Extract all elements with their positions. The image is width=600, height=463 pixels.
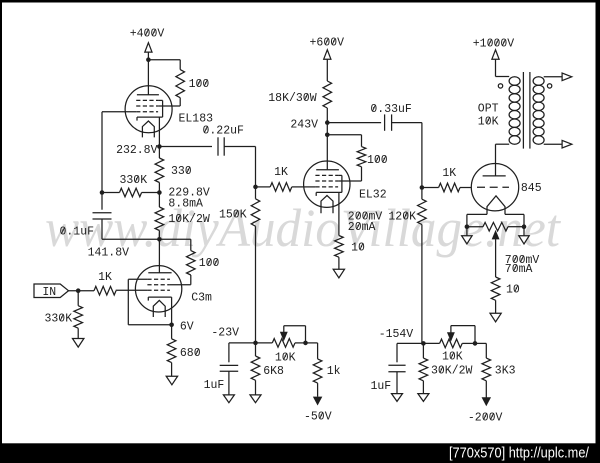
svg-text:6K8: 6K8 [263, 365, 284, 378]
svg-text:-50V: -50V [304, 410, 332, 423]
svg-text:+600V: +600V [310, 37, 345, 50]
svg-text:1uF: 1uF [371, 380, 392, 393]
svg-text:100: 100 [367, 154, 388, 167]
svg-text:IN: IN [42, 286, 56, 299]
svg-text:845: 845 [521, 182, 542, 195]
svg-text:243V: 243V [290, 119, 318, 132]
svg-text:OPT: OPT [478, 103, 499, 116]
svg-text:[770x570] http://uplc.me/: [770x570] http://uplc.me/ [449, 445, 590, 462]
svg-text:6V: 6V [180, 321, 194, 334]
svg-text:330: 330 [171, 165, 192, 178]
svg-text:100: 100 [189, 78, 210, 91]
svg-text:1uF: 1uF [204, 379, 225, 392]
svg-text:-200V: -200V [468, 411, 503, 424]
svg-text:+1000V: +1000V [473, 38, 515, 51]
svg-text:3K3: 3K3 [495, 365, 516, 378]
svg-text:20mA: 20mA [348, 221, 376, 234]
svg-text:150K: 150K [219, 209, 247, 222]
svg-text:0.22uF: 0.22uF [203, 124, 245, 137]
svg-text:141.8V: 141.8V [88, 247, 130, 260]
svg-text:120K: 120K [388, 210, 416, 223]
svg-text:-154V: -154V [379, 328, 414, 341]
svg-text:8.8mA: 8.8mA [168, 197, 203, 210]
svg-text:232.8V: 232.8V [116, 144, 158, 157]
svg-text:330K: 330K [120, 174, 148, 187]
svg-text:-23V: -23V [211, 327, 239, 340]
svg-text:100: 100 [199, 257, 220, 270]
svg-text:C3m: C3m [191, 292, 212, 305]
svg-text:1K: 1K [98, 271, 112, 284]
svg-text:330K: 330K [45, 313, 73, 326]
svg-text:1K: 1K [442, 167, 456, 180]
svg-text:1k: 1k [327, 365, 341, 378]
svg-text:1K: 1K [274, 166, 288, 179]
svg-text:10K/2W: 10K/2W [168, 213, 210, 226]
svg-text:0.33uF: 0.33uF [370, 103, 412, 116]
svg-text:10K: 10K [275, 351, 296, 364]
svg-text:70mA: 70mA [505, 263, 533, 276]
svg-text:10K: 10K [442, 351, 463, 364]
svg-text:18K/30W: 18K/30W [268, 92, 316, 105]
svg-text:EL32: EL32 [359, 189, 387, 202]
svg-text:10K: 10K [478, 115, 499, 128]
svg-text:30K/2W: 30K/2W [431, 365, 473, 378]
svg-text:+400V: +400V [130, 27, 165, 40]
svg-text:680: 680 [180, 347, 201, 360]
